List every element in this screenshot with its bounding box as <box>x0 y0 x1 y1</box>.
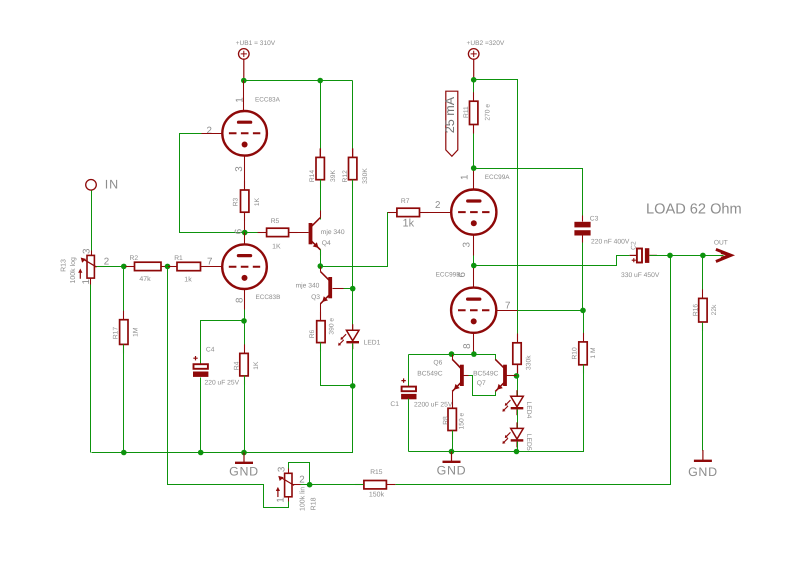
svg-text:R17: R17 <box>112 327 119 340</box>
wire to R16 <box>702 256 704 299</box>
svg-text:BC549C: BC549C <box>473 371 498 378</box>
svg-text:6: 6 <box>457 272 468 278</box>
svg-text:mje 340: mje 340 <box>321 229 345 236</box>
svg-text:8: 8 <box>462 343 473 349</box>
supply terminal +UB1 <box>239 49 250 60</box>
base pin Q7 <box>507 375 517 377</box>
wire signal row R2 R1 <box>97 266 223 268</box>
wire C3 to grid node <box>582 236 584 311</box>
wire to R10 <box>583 311 585 342</box>
junction <box>198 450 204 456</box>
svg-text:R2: R2 <box>130 255 139 262</box>
resistor R3 <box>232 181 261 221</box>
node feedback divider <box>307 482 313 488</box>
wire to R17 <box>123 267 125 320</box>
wire pot R18 to R1/R2 node <box>168 267 289 508</box>
resistor R11 <box>463 92 491 133</box>
wire C1 to ground rail right <box>408 399 410 452</box>
resistor R16 <box>692 289 718 331</box>
svg-text:LED5: LED5 <box>525 434 532 451</box>
wire pot R18 pin3 loop <box>289 463 310 485</box>
potentiometer R13 <box>60 248 109 285</box>
wire R4 to ground rail <box>244 376 246 453</box>
svg-text:mje 340: mje 340 <box>296 283 320 290</box>
node cathode ECC99B <box>471 351 477 357</box>
LED LED1 <box>338 324 381 349</box>
wire ECC99B cathode <box>473 333 475 355</box>
junction <box>449 449 455 455</box>
resistor R10 <box>571 333 597 374</box>
resistor R1 <box>168 255 210 284</box>
output terminal OUT <box>714 239 731 261</box>
svg-text:1 M: 1 M <box>590 347 597 359</box>
svg-text:R3: R3 <box>232 197 239 206</box>
svg-text:330k: 330k <box>525 355 532 370</box>
junction <box>241 450 247 456</box>
svg-text:Q3: Q3 <box>311 294 320 301</box>
wire LED1 cathode to node <box>352 344 354 386</box>
input terminal IN <box>86 180 97 191</box>
wire grid ECC99B <box>497 310 584 312</box>
svg-text:7: 7 <box>505 300 510 311</box>
collector pin Q4 <box>311 218 321 228</box>
svg-text:7: 7 <box>207 256 212 267</box>
resistor R14 <box>309 148 337 188</box>
resistor R2 <box>126 255 171 283</box>
capacitor C4 <box>193 346 240 386</box>
node driver output <box>318 263 324 269</box>
svg-text:GND: GND <box>229 464 259 478</box>
svg-text:LOAD 62 Ohm: LOAD 62 Ohm <box>646 202 742 218</box>
svg-text:R1: R1 <box>174 255 183 262</box>
svg-text:150k: 150k <box>369 490 385 498</box>
junction <box>514 449 520 455</box>
resistor R17 <box>112 311 139 354</box>
pin <box>582 216 584 222</box>
svg-text:C4: C4 <box>206 346 215 353</box>
svg-text:22k: 22k <box>711 304 718 315</box>
wire LED4 to LED5 <box>517 410 519 429</box>
node grid / C3 / R10 <box>580 308 586 314</box>
transistor Q7 <box>473 359 507 391</box>
base pin Q6 <box>464 375 469 377</box>
wire <box>319 148 321 157</box>
wire grid ECC83A to node <box>180 134 245 233</box>
pin 8 wire ECC83B <box>244 290 246 310</box>
node R6 / LED1 / ground return <box>350 383 356 389</box>
pin 6 wire ECC83B <box>244 233 246 245</box>
wire R17 to ground rail <box>123 345 125 453</box>
wiper pin R13 <box>95 266 105 268</box>
pin <box>288 469 290 474</box>
pin wire R7 to ECC99A grid <box>420 212 452 214</box>
svg-text:R14: R14 <box>309 170 316 183</box>
svg-text:390 e: 390 e <box>329 318 336 335</box>
svg-text:ECC83A: ECC83A <box>255 97 281 104</box>
node feedback tap <box>667 253 673 259</box>
svg-text:R11: R11 <box>463 106 470 118</box>
svg-text:1: 1 <box>459 175 470 180</box>
svg-text:330K: 330K <box>362 168 369 184</box>
wire LED1 anode <box>352 289 354 331</box>
resistor R15 <box>355 469 396 499</box>
svg-text:220 uF 25V: 220 uF 25V <box>205 380 240 387</box>
wire C2 to OUT <box>650 255 724 257</box>
emitter pin Q3 <box>321 295 331 304</box>
node load tap <box>700 253 706 259</box>
pin 3 wire ECC99A <box>473 235 475 256</box>
wire to R14 <box>320 81 322 158</box>
svg-text:LED4: LED4 <box>525 402 532 419</box>
pin <box>582 236 584 243</box>
collector pin Q7 <box>496 360 506 370</box>
svg-text:3: 3 <box>461 242 472 248</box>
svg-text:2: 2 <box>104 256 109 267</box>
svg-text:R5: R5 <box>271 218 280 225</box>
svg-text:2200 uF 25V: 2200 uF 25V <box>414 402 453 409</box>
ground GND left <box>229 453 259 479</box>
node Q6 collector <box>449 351 455 357</box>
svg-text:Q4: Q4 <box>322 240 331 247</box>
pin 1 wire ECC83A <box>243 81 245 112</box>
svg-text:3: 3 <box>234 166 245 172</box>
svg-text:+UB1 = 310V: +UB1 = 310V <box>236 40 276 47</box>
svg-text:150 e: 150 e <box>458 412 465 429</box>
resistor R4 <box>234 344 260 385</box>
wire Q3 base to node <box>344 288 353 290</box>
wire cathode to R3 <box>244 156 246 233</box>
svg-text:2: 2 <box>435 200 440 211</box>
svg-text:R13: R13 <box>60 259 67 272</box>
transistor Q3 <box>296 272 332 304</box>
svg-text:1K: 1K <box>272 243 281 250</box>
triode ECC83A <box>222 97 280 156</box>
pin <box>90 279 92 285</box>
collector pin Q3 <box>321 272 331 282</box>
svg-text:1K: 1K <box>253 361 260 370</box>
svg-text:R16: R16 <box>692 304 699 317</box>
svg-text:R18: R18 <box>311 497 318 510</box>
svg-text:R10: R10 <box>571 347 578 360</box>
svg-text:C1: C1 <box>390 401 399 408</box>
wire cathode ECC83B <box>244 290 246 321</box>
triode ECC99B <box>436 272 497 333</box>
pin 3 wire ECC83A <box>244 156 246 190</box>
svg-text:R7: R7 <box>401 198 410 205</box>
svg-text:ECC83B: ECC83B <box>256 294 281 301</box>
pin 2 wire ECC83A <box>202 133 223 135</box>
svg-text:47k: 47k <box>139 275 151 283</box>
wire <box>243 59 245 80</box>
wire plate sense to C3 <box>474 169 583 222</box>
svg-text:2: 2 <box>207 125 212 136</box>
resistor R5 <box>258 218 298 250</box>
wire to R12 <box>352 81 354 158</box>
current flag 25 mA <box>443 91 458 156</box>
supply terminal +UB2 <box>468 49 479 60</box>
pin 7 wire ECC99B <box>497 310 518 312</box>
node wiper / R2 / R17 <box>121 264 127 270</box>
svg-text:R12: R12 <box>342 170 349 183</box>
svg-text:220 nF 400V: 220 nF 400V <box>591 239 630 246</box>
wire R15 to pot node <box>310 484 364 486</box>
pin <box>517 334 519 343</box>
capacitor C3 <box>574 216 629 246</box>
svg-text:1K: 1K <box>254 197 261 206</box>
node cathode / C4 / R4 <box>241 318 247 324</box>
svg-text:1k: 1k <box>403 217 415 229</box>
svg-text:C2: C2 <box>630 241 637 250</box>
svg-text:OUT: OUT <box>714 239 728 246</box>
svg-text:1k: 1k <box>184 276 192 284</box>
triode ECC99A <box>451 174 510 235</box>
wire R6 bottom to node <box>321 343 353 386</box>
wire to R4 <box>244 321 246 354</box>
wire <box>352 148 354 157</box>
svg-text:25 mA: 25 mA <box>443 96 457 133</box>
LED LED5 <box>502 422 532 450</box>
node plate / C3 sense <box>471 165 477 171</box>
wire to LED4 <box>517 376 519 397</box>
svg-text:R15: R15 <box>370 469 383 476</box>
wire ECC99B plate <box>473 266 475 288</box>
wire Q7 emitter to Q6 base <box>469 376 496 396</box>
svg-text:100k lin: 100k lin <box>298 487 306 511</box>
wire wiper to node <box>301 484 310 486</box>
junction <box>121 450 127 456</box>
wire <box>473 59 475 80</box>
LED LED4 <box>502 390 532 418</box>
node R2 / R1 / feedback <box>165 264 171 270</box>
resistor R6 <box>309 312 336 352</box>
svg-text:2: 2 <box>299 474 304 485</box>
svg-text:R8: R8 <box>443 416 450 425</box>
svg-text:R6: R6 <box>309 329 316 338</box>
wire IN to pot R13 <box>91 191 93 256</box>
svg-text:8: 8 <box>234 297 245 303</box>
junction <box>317 78 323 84</box>
svg-text:100k log: 100k log <box>69 257 77 284</box>
triode ECC83B <box>222 244 280 301</box>
wire Q4 emitter to node <box>320 250 322 267</box>
svg-text:LED1: LED1 <box>364 339 381 346</box>
pin <box>244 213 246 231</box>
wire ground rail left <box>92 386 353 453</box>
pin 6 wire ECC99B <box>473 268 475 288</box>
svg-text:39K: 39K <box>330 170 337 182</box>
wire feedback from OUT <box>396 256 671 485</box>
svg-text:GND: GND <box>437 464 467 478</box>
potentiometer R18 <box>276 466 318 511</box>
svg-text:+UB2 =320V: +UB2 =320V <box>467 40 505 47</box>
resistor R12 <box>342 148 369 188</box>
wire ECC99A cathode <box>473 235 475 266</box>
pin <box>289 232 309 234</box>
svg-text:C3: C3 <box>590 216 599 223</box>
svg-text:BC549C: BC549C <box>417 371 442 378</box>
pin <box>517 365 519 376</box>
wire R10 to ground rail right <box>409 365 584 452</box>
resistor R7 <box>388 198 429 229</box>
wire node to R7 <box>321 213 397 267</box>
node lower plate / upper grid <box>242 230 248 236</box>
wire +UB1 rail <box>244 80 353 82</box>
emitter pin Q6 <box>453 382 462 392</box>
svg-text:3: 3 <box>276 466 287 472</box>
wiper pin R18 <box>293 484 301 486</box>
node Q7 base / LED4 <box>514 373 520 379</box>
pin 8 wire ECC99B <box>473 333 475 353</box>
wire to C1 <box>408 355 410 387</box>
collector pin Q6 <box>453 360 462 370</box>
svg-text:1: 1 <box>276 497 287 502</box>
wire +UB2 to R11 <box>473 80 475 102</box>
capacitor C1 <box>390 378 452 408</box>
capacitor C2 <box>621 241 660 279</box>
resistor 330k <box>513 334 533 374</box>
svg-text:6: 6 <box>234 228 245 234</box>
node output cathode follower <box>471 263 477 269</box>
wire C4 to ground rail <box>200 378 202 453</box>
junction <box>241 78 247 84</box>
emitter pin Q4 <box>311 241 321 250</box>
base pin Q3 <box>333 288 344 290</box>
wire cathode row <box>409 355 496 361</box>
wire to C4 <box>201 321 245 365</box>
svg-text:330 uF 450V: 330 uF 450V <box>621 272 660 279</box>
wire R14 to Q4 collector <box>320 180 322 220</box>
wire R8 to ground <box>452 431 454 452</box>
transistor Q4 <box>309 218 345 250</box>
pin <box>91 251 93 256</box>
svg-text:270 e: 270 e <box>484 104 491 121</box>
svg-text:1: 1 <box>235 97 246 102</box>
wire LED5 to ground rail <box>517 442 519 452</box>
wire pot R13 to ground rail <box>90 285 92 453</box>
wire +UB2 to 330k <box>474 80 518 337</box>
node Q3 base / R12 / LED1 <box>350 286 356 292</box>
pin 7 wire ECC83B <box>201 266 223 268</box>
wire R12 to LED node <box>352 180 354 289</box>
svg-text:ECC99A: ECC99A <box>485 174 511 181</box>
svg-text:R4: R4 <box>234 361 241 370</box>
svg-text:IN: IN <box>105 178 119 192</box>
wire node to R5 <box>245 232 309 234</box>
wire R16 to ground <box>702 323 704 451</box>
transistor Q6 <box>417 359 464 391</box>
pin 1 wire ECC99A <box>473 169 475 190</box>
svg-text:3: 3 <box>81 248 92 254</box>
ground GND right <box>688 450 718 479</box>
pin <box>473 125 475 134</box>
svg-text:Q7: Q7 <box>477 380 486 387</box>
resistor R8 <box>443 399 466 439</box>
ground GND middle <box>437 452 467 478</box>
svg-text:GND: GND <box>688 465 718 479</box>
pin <box>288 497 290 502</box>
junction <box>471 77 477 83</box>
svg-text:Q6: Q6 <box>433 360 442 367</box>
svg-text:1M: 1M <box>133 327 140 337</box>
wire R11 to plate <box>473 125 475 169</box>
emitter pin Q7 <box>496 382 506 392</box>
wire output to C2 <box>474 256 630 266</box>
